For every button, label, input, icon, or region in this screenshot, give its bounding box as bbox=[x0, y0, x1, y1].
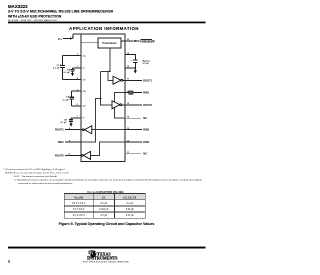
svg-text:C1: C1 bbox=[102, 195, 106, 199]
svg-text:0.047 µF: 0.047 µF bbox=[99, 209, 109, 211]
svg-text:3 V to 5.5 V: 3 V to 5.5 V bbox=[73, 214, 86, 217]
svg-text:0.33 µF: 0.33 µF bbox=[126, 209, 135, 211]
svg-text:V+: V+ bbox=[83, 68, 86, 70]
wire: V- stub bbox=[71, 118, 81, 122]
svg-text:0.1 µF: 0.1 µF bbox=[100, 215, 107, 217]
svg-text:C2, C3, C4: C2, C3, C4 bbox=[123, 195, 136, 199]
svg-text:0.1 µF: 0.1 µF bbox=[143, 63, 150, 65]
wire: C2- stub bbox=[72, 105, 81, 107]
wire: ROUT2 stub bbox=[65, 154, 82, 156]
wire: V+ stub bbox=[73, 68, 82, 72]
svg-text:0.1 µF: 0.1 µF bbox=[60, 122, 67, 124]
receiver U1D bbox=[81, 151, 90, 159]
svg-text:APPLICATION INFORMATION: APPLICATION INFORMATION bbox=[69, 26, 139, 31]
driver U1B bbox=[112, 101, 122, 109]
wire: driver2 input routing bbox=[101, 71, 112, 105]
svg-text:3: 3 bbox=[77, 66, 78, 68]
ground: C5 / GND pin bbox=[134, 69, 137, 74]
svg-text:9: 9 bbox=[69, 140, 70, 142]
svg-text:SLLS351B – JUNE 1997 – REVISED: SLLS351B – JUNE 1997 – REVISED MARCH 200… bbox=[8, 19, 58, 22]
svg-text:5: 5 bbox=[77, 89, 78, 91]
wire: C1+ stub bbox=[62, 55, 81, 57]
svg-text:connected as shown above for b: connected as shown above for best overal… bbox=[18, 182, 73, 185]
svg-text:VCC (V): VCC (V) bbox=[74, 195, 83, 199]
svg-text:NC: NC bbox=[143, 116, 147, 120]
svg-text:ROUT1: ROUT1 bbox=[55, 128, 64, 132]
wire: VCC pin stub right bbox=[125, 55, 135, 69]
wire: DOUT1 stub bbox=[123, 79, 142, 81]
svg-text:18: 18 bbox=[127, 66, 129, 68]
svg-text:C. Nonpolarized ceramic capac: C. Nonpolarized ceramic capacitors are a… bbox=[14, 178, 203, 181]
wire: receiver2 input routing bbox=[91, 142, 126, 155]
svg-text:6: 6 bbox=[77, 104, 78, 106]
wire: internal horizontal bbox=[101, 70, 110, 72]
capacitor C2 plates bbox=[70, 97, 75, 99]
ground: C3 bbox=[71, 71, 74, 76]
internal grey wires bbox=[81, 48, 125, 155]
table grid bbox=[64, 194, 145, 200]
svg-text:NC: NC bbox=[143, 152, 147, 156]
junction dot C bbox=[135, 67, 137, 69]
resistor R1 (5 kOhm) bbox=[129, 91, 133, 94]
svg-text:7: 7 bbox=[77, 116, 78, 118]
svg-text:POST OFFICE BOX 655303 • DAL: POST OFFICE BOX 655303 • DALLAS, TEXAS 7… bbox=[83, 260, 129, 263]
svg-text:Powerdown: Powerdown bbox=[102, 42, 117, 45]
capacitor C5 plates bbox=[133, 60, 138, 62]
capacitor C4 plates bbox=[69, 120, 73, 122]
svg-text:3-V TO 5.5-V MULTICHANNEL RS-2: 3-V TO 5.5-V MULTICHANNEL RS-232 LINE DR… bbox=[8, 9, 114, 13]
junction dot A bbox=[109, 71, 111, 73]
wire: INVALID stub bbox=[125, 141, 142, 143]
svg-text:5 V ± 0.5 V: 5 V ± 0.5 V bbox=[73, 209, 85, 211]
svg-text:20: 20 bbox=[127, 39, 129, 41]
ground: C4 bbox=[69, 122, 72, 127]
capacitor C3 plates bbox=[70, 70, 74, 72]
footer rule bbox=[8, 247, 206, 249]
arrow: FORCEOFF input bbox=[133, 40, 135, 42]
svg-text:16: 16 bbox=[72, 37, 74, 39]
arrow: VCC input bbox=[70, 37, 73, 39]
svg-text:DIN2: DIN2 bbox=[143, 140, 149, 144]
svg-text:+: + bbox=[66, 119, 68, 121]
svg-text:17: 17 bbox=[127, 79, 129, 81]
svg-text:2: 2 bbox=[77, 54, 78, 56]
svg-text:8: 8 bbox=[8, 259, 11, 264]
svg-text:11: 11 bbox=[127, 152, 129, 154]
svg-text:NOTES: A. C1, C2, C3, and C4: NOTES: A. C1, C2, C3, and C4 values are … bbox=[5, 171, 70, 174]
wire: receiver1 input bbox=[92, 129, 125, 131]
svg-text:DIN1: DIN1 bbox=[58, 140, 64, 144]
wire: ROUT1 stub bbox=[65, 129, 82, 131]
header rule bbox=[8, 22, 206, 24]
wire: C2 bracket vertical bbox=[71, 91, 73, 106]
svg-text:VCC: VCC bbox=[58, 37, 63, 41]
driver U1A bbox=[113, 76, 123, 84]
wire: C2+ stub bbox=[72, 90, 81, 92]
wire: C1 bracket vertical bbox=[61, 56, 63, 80]
wire: powerdown output vertical bbox=[109, 48, 111, 71]
svg-text:13: 13 bbox=[127, 128, 129, 130]
svg-text:ROUT2: ROUT2 bbox=[55, 153, 64, 157]
svg-text:C1+: C1+ bbox=[83, 56, 87, 58]
wire: DIN1 stub bbox=[65, 141, 81, 143]
svg-text:8: 8 bbox=[69, 128, 70, 130]
svg-text:0.1 µF: 0.1 µF bbox=[100, 203, 107, 205]
svg-text:15: 15 bbox=[127, 103, 129, 105]
wire: DOUT2 stub bbox=[122, 104, 142, 106]
svg-text:0.1 µF: 0.1 µF bbox=[53, 68, 60, 70]
svg-text:DOUT1: DOUT1 bbox=[143, 78, 152, 82]
receiver U1C bbox=[82, 126, 91, 134]
svg-text:0.1 µF: 0.1 µF bbox=[126, 203, 133, 205]
wire: VCC entry bbox=[63, 34, 73, 39]
wire: FORCEOFF overline bbox=[140, 39, 152, 41]
svg-text:Bypass: Bypass bbox=[143, 60, 152, 62]
chip U1 outline bbox=[73, 34, 125, 162]
wire: GND pin stub right bbox=[125, 67, 135, 69]
svg-text:3.3 V ± 0.3 V: 3.3 V ± 0.3 V bbox=[72, 203, 86, 205]
svg-text:0.47 µF: 0.47 µF bbox=[126, 215, 135, 217]
junction dot B bbox=[100, 98, 102, 100]
svg-text:16: 16 bbox=[127, 91, 129, 93]
svg-text:DOUT2: DOUT2 bbox=[143, 103, 152, 107]
svg-text:12: 12 bbox=[127, 140, 129, 142]
svg-text:RIN1: RIN1 bbox=[143, 91, 149, 95]
svg-text:+: + bbox=[131, 60, 133, 62]
capacitor C1 plates bbox=[60, 66, 65, 68]
svg-text:C2+: C2+ bbox=[83, 91, 87, 93]
wire: FORCEOFF stub bbox=[121, 40, 140, 42]
wire: RIN2 stub bbox=[125, 129, 142, 131]
svg-text:0.1 µF: 0.1 µF bbox=[63, 99, 70, 101]
wire: NC stub upper bbox=[125, 117, 141, 119]
svg-text:19: 19 bbox=[127, 53, 129, 55]
wire: RIN1 stub bbox=[125, 92, 142, 94]
svg-text:RIN2: RIN2 bbox=[143, 128, 149, 132]
svg-text:FORCEOFF: FORCEOFF bbox=[140, 39, 155, 43]
wire: driver1 input routing bbox=[108, 71, 113, 80]
wire: RIN1 internal routing bbox=[115, 93, 126, 119]
wire: C1- stub bbox=[62, 79, 81, 81]
TI logo bug bbox=[89, 250, 97, 258]
svg-text:10: 10 bbox=[68, 154, 70, 156]
svg-text:† C3 can be connected to VCC o: † C3 can be connected to VCC or GND. R(p… bbox=[3, 168, 65, 171]
svg-text:C1−: C1− bbox=[83, 80, 87, 82]
svg-text:C2−: C2− bbox=[83, 106, 87, 108]
svg-text:MAX3222: MAX3222 bbox=[8, 4, 28, 9]
wire: NC stub lower bbox=[125, 153, 141, 155]
wire: powerdown block to left edge bbox=[81, 41, 98, 43]
svg-text:WITH ±15-kV ESD PROTECTION: WITH ±15-kV ESD PROTECTION bbox=[8, 15, 62, 19]
powerdown block bbox=[98, 38, 121, 48]
svg-text:Figure 5. Typical Operating Ci: Figure 5. Typical Operating Circuit and … bbox=[59, 222, 155, 226]
svg-text:B. NC – No internal connectio: B. NC – No internal connection (see Note… bbox=[14, 175, 58, 178]
svg-text:0.1 µF: 0.1 µF bbox=[63, 72, 70, 74]
wire: DIN1 internal routing bbox=[81, 99, 101, 142]
svg-text:V−: V− bbox=[83, 118, 86, 120]
